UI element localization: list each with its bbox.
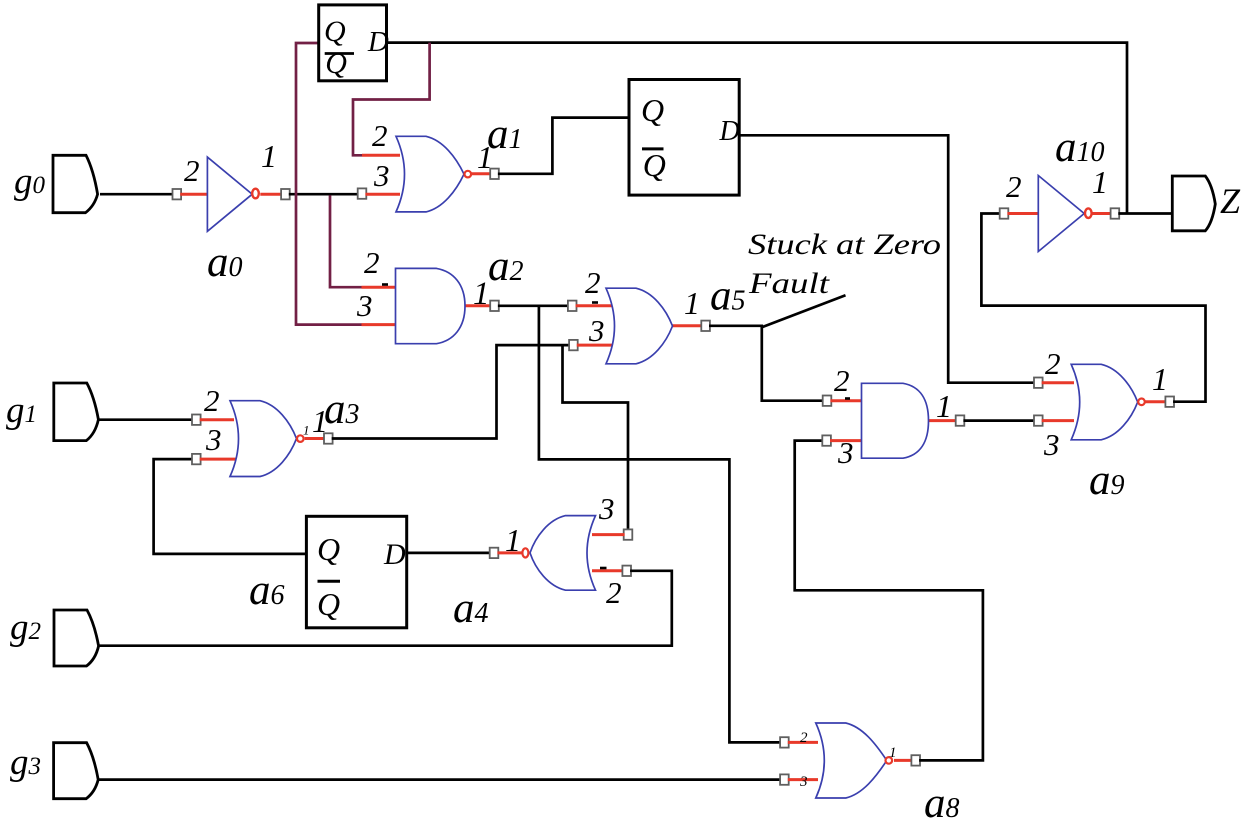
label a4	[453, 585, 489, 632]
label a10	[1055, 124, 1105, 171]
input pad g3	[54, 743, 99, 799]
fault annotation line 1	[748, 228, 941, 261]
svg-text:D: D	[719, 116, 740, 147]
wire a1 output to flip-flop U2	[498, 118, 629, 174]
output pad Z	[1172, 176, 1215, 231]
wire red stub a4 input 2	[592, 569, 623, 572]
svg-text:1: 1	[505, 522, 521, 558]
label a9	[1089, 457, 1125, 504]
nor gate a8	[816, 723, 892, 798]
nor gate a9	[1071, 364, 1145, 440]
svg-text:Q: Q	[325, 47, 347, 80]
wire red stub a8 input 3	[788, 778, 818, 781]
nor gate a1	[396, 136, 471, 212]
fault annotation line 2	[748, 267, 830, 300]
svg-text:3: 3	[373, 158, 390, 193]
wire a2 output branch to a8 input 2	[539, 306, 781, 743]
label a6	[249, 567, 285, 614]
svg-text:Q: Q	[324, 15, 346, 48]
wire red stub a5 input 2	[576, 304, 614, 307]
wire Z net branch to a1 input 2	[353, 43, 430, 156]
flip-flop U2 overline	[642, 147, 664, 150]
wire red stub a3 output	[305, 437, 325, 440]
pin connector a5 input 3	[569, 340, 578, 350]
svg-text:1: 1	[477, 139, 493, 175]
pin connector a0 input 2	[173, 189, 182, 199]
pin connector a10 input 2	[1000, 208, 1009, 218]
wire a10 output to Z pad	[1118, 212, 1172, 215]
a7 pin 2 tick	[845, 397, 850, 400]
a2 pin 2 tick	[382, 283, 388, 286]
pin connector a3 input 2	[192, 415, 201, 425]
wire red stub a10 output	[1092, 212, 1111, 215]
wire red stub a2 input 2	[362, 286, 397, 289]
wire red stub a3 input 2	[200, 418, 234, 421]
a2 pin 2 label	[364, 245, 380, 280]
wire red stub a7 input 2	[830, 399, 862, 402]
svg-text:Q: Q	[317, 586, 340, 622]
svg-text:Stuck at Zero: Stuck at Zero	[748, 228, 941, 261]
svg-text:Q: Q	[643, 147, 666, 183]
svg-text:2: 2	[204, 383, 220, 418]
wire red stub a5 output	[673, 324, 703, 327]
svg-text:3: 3	[356, 288, 373, 323]
svg-text:2: 2	[372, 118, 388, 153]
svg-text:3: 3	[598, 491, 615, 526]
pin connector a4 input 2	[622, 566, 631, 576]
flip-flop U2 Q label	[641, 92, 664, 128]
pin connector a5 output	[701, 321, 710, 331]
a10 pin 2 label	[1006, 169, 1022, 204]
svg-text:2: 2	[1045, 346, 1061, 381]
flip-flop U2 box	[629, 80, 739, 196]
flip-flop U2 D label	[719, 116, 740, 147]
label g0	[14, 161, 46, 202]
wire red stub a2 output	[465, 304, 491, 307]
a3 pin 1 label	[312, 403, 328, 439]
wire g2 to a4 input 2	[99, 571, 672, 646]
svg-text:1: 1	[312, 403, 328, 439]
svg-text:1: 1	[473, 276, 490, 312]
a4 pin 3 label	[598, 491, 615, 526]
svg-text:3: 3	[205, 422, 222, 457]
svg-text:3: 3	[799, 774, 808, 790]
wire red stub a1 output	[471, 172, 491, 175]
svg-text:2: 2	[834, 363, 850, 398]
a8 pin 2 label	[800, 730, 808, 746]
label a0	[207, 239, 243, 286]
label a8	[924, 780, 960, 824]
svg-text:1: 1	[684, 285, 700, 321]
label g1	[6, 390, 37, 431]
wire red stub a4 input 3	[592, 533, 625, 536]
svg-text:2: 2	[585, 265, 601, 300]
a9 pin 1 label	[1152, 361, 1168, 397]
input pad g2	[54, 610, 99, 666]
svg-text:Fault: Fault	[748, 267, 830, 300]
a4 pin 2 label	[606, 575, 622, 610]
label g2	[10, 607, 41, 648]
a5 pin 2 label	[585, 265, 601, 300]
label Z	[1220, 181, 1241, 221]
a0 pin 1 label	[261, 138, 277, 174]
and gate a2	[396, 268, 466, 343]
pin connector a2 output	[490, 301, 499, 311]
wire flip-flop U1 D to Z net	[387, 43, 1128, 214]
svg-text:D: D	[383, 538, 406, 571]
a5 pin 3 label	[588, 313, 605, 348]
nor gate a3	[230, 401, 304, 477]
a8 pin 3 label	[799, 774, 808, 790]
flip-flop U3 D label	[383, 538, 406, 571]
a0 pin 2 label	[184, 153, 200, 188]
flip-flop U3 Q label	[317, 531, 340, 567]
a2 pin 1 label	[473, 276, 490, 312]
input pad g0	[53, 155, 98, 212]
a3 pin 3 label	[205, 422, 222, 457]
label a1	[487, 111, 523, 158]
label a2	[488, 243, 524, 290]
a3 pin 2 label	[204, 383, 220, 418]
a7 pin 3 label	[837, 435, 854, 470]
wire a5 output to a7 input 2	[709, 326, 824, 401]
wire a9 output to a10 input 2	[981, 214, 1205, 402]
a1 pin 3 label	[373, 158, 390, 193]
wire a3 output branch to a4 input 3	[563, 345, 629, 531]
a9 pin 2 label	[1045, 346, 1061, 381]
flip-flop U2 Qbar label	[643, 147, 666, 183]
a1 pin 1 label	[477, 139, 493, 175]
wire a8 output to a7 input 3	[795, 441, 983, 761]
svg-text:2: 2	[800, 730, 808, 746]
a5 pin 2 tick	[592, 301, 598, 304]
a4 pin 2 tick	[600, 567, 607, 570]
svg-text:3: 3	[1043, 427, 1060, 462]
a4 pin 1 label	[505, 522, 521, 558]
svg-text:1: 1	[936, 388, 952, 424]
svg-text:D: D	[367, 26, 389, 58]
wire red stub a8 output	[894, 759, 912, 762]
pin connector a1 input 3	[358, 188, 367, 198]
pin connector a7 output	[956, 415, 965, 425]
svg-text:3: 3	[837, 435, 854, 470]
a1 pin 2 label	[372, 118, 388, 153]
svg-text:2: 2	[184, 153, 200, 188]
flip-flop U3 box	[306, 516, 406, 628]
or gate a5	[606, 288, 673, 364]
wire red stub a10 input 2	[1007, 212, 1039, 215]
pin connector a9 output	[1165, 397, 1174, 407]
a7 pin 2 label	[834, 363, 850, 398]
wire red stub a1 input 2	[362, 154, 400, 157]
svg-text:1: 1	[1092, 164, 1108, 200]
wire g1 to a3 input 2	[98, 418, 193, 421]
inverter a10	[1038, 176, 1091, 252]
pin connector a4 input 3	[624, 529, 633, 539]
pin connector a0 output	[281, 189, 290, 199]
inverter a0	[207, 157, 258, 231]
svg-text:Q: Q	[317, 531, 340, 567]
flip-flop U3 Qbar label	[317, 586, 340, 622]
wire red stub a0 input 2	[180, 193, 208, 196]
wire red stub a1 input 3	[365, 193, 400, 196]
pin connector a5 input 2	[568, 301, 577, 311]
and gate a7	[862, 383, 929, 458]
svg-text:1: 1	[1152, 361, 1168, 397]
wire a2 output to a5 input 2	[498, 304, 569, 307]
label g3	[10, 742, 41, 783]
fault pointer line	[763, 295, 846, 327]
label a3	[324, 386, 360, 433]
pin connector a9 input 2	[1034, 378, 1043, 388]
wire a3 output to a5 input 3	[332, 345, 570, 438]
wire g0 to a0 input	[100, 193, 177, 196]
a9 pin 3 label	[1043, 427, 1060, 462]
flip-flop U3 overline	[318, 580, 341, 583]
svg-text:2: 2	[364, 245, 380, 280]
wire red stub a9 output	[1145, 400, 1166, 403]
a5 pin 1 label	[684, 285, 700, 321]
wire red stub a3 input 3	[200, 458, 238, 461]
wire red stub a8 input 2	[788, 741, 818, 744]
pin connector a1 output	[490, 169, 499, 179]
pin connector a8 output	[911, 755, 920, 765]
label a5	[710, 273, 746, 320]
svg-text:3: 3	[588, 313, 605, 348]
wire flip-flop U3 Q to a3 input 3	[154, 459, 307, 554]
a3 pin 1 small label	[303, 423, 310, 438]
svg-text:Z: Z	[1220, 181, 1241, 221]
wire flip-flop U3 D to a4 output	[407, 552, 491, 555]
flip-flop U1 Q label	[324, 15, 346, 48]
svg-text:1: 1	[303, 423, 310, 438]
svg-text:1: 1	[261, 138, 277, 174]
input pad g1	[54, 383, 99, 441]
a8 pin 1 label	[889, 745, 897, 761]
nor mirrored gate a4	[522, 516, 595, 591]
wire g3 to a8 input 3	[98, 778, 781, 781]
pin connector a9 input 3	[1034, 415, 1043, 425]
a2 pin 3 label	[356, 288, 373, 323]
wire red stub a5 input 3	[577, 344, 614, 347]
a10 pin 1 label	[1092, 164, 1108, 200]
a7 pin 1 label	[936, 388, 952, 424]
pin connector a3 output	[324, 433, 333, 443]
pin connector a8 input 2	[780, 737, 789, 747]
flip-flop U1 Qbar label	[325, 47, 347, 80]
wire flip-flop U2 D to a9 input 2	[739, 135, 1035, 382]
pin connector a10 output	[1111, 208, 1120, 218]
pin connector a8 input 3	[780, 774, 789, 784]
flip-flop U1 box	[319, 5, 387, 81]
wire red stub a9 input 2	[1042, 381, 1074, 384]
svg-text:2: 2	[606, 575, 622, 610]
wire red stub a4 output	[497, 551, 521, 554]
wire a7 output to a9 input 3	[963, 419, 1035, 422]
pin connector a4 output	[490, 548, 499, 558]
wire flip-flop U1 Q to a2 input 3	[296, 43, 362, 325]
wire red stub a2 input 3	[362, 323, 397, 326]
svg-text:Q: Q	[641, 92, 664, 128]
pin connector a7 input 3	[822, 435, 831, 445]
wire red stub a9 input 3	[1042, 419, 1074, 422]
pin connector a3 input 3	[192, 454, 201, 464]
wire a0 output branch to a2 input 2	[330, 195, 362, 287]
wire a0 output to a1 input 3	[289, 193, 362, 196]
flip-flop U1 fraction bar	[325, 52, 354, 55]
pin connector a7 input 2	[823, 396, 832, 406]
wire red stub a0 output	[260, 193, 282, 196]
wire red stub a7 input 3	[830, 439, 863, 442]
svg-text:2: 2	[1006, 169, 1022, 204]
flip-flop U1 D label	[367, 26, 389, 58]
svg-text:1: 1	[889, 745, 897, 761]
wire red stub a7 output	[929, 419, 957, 422]
